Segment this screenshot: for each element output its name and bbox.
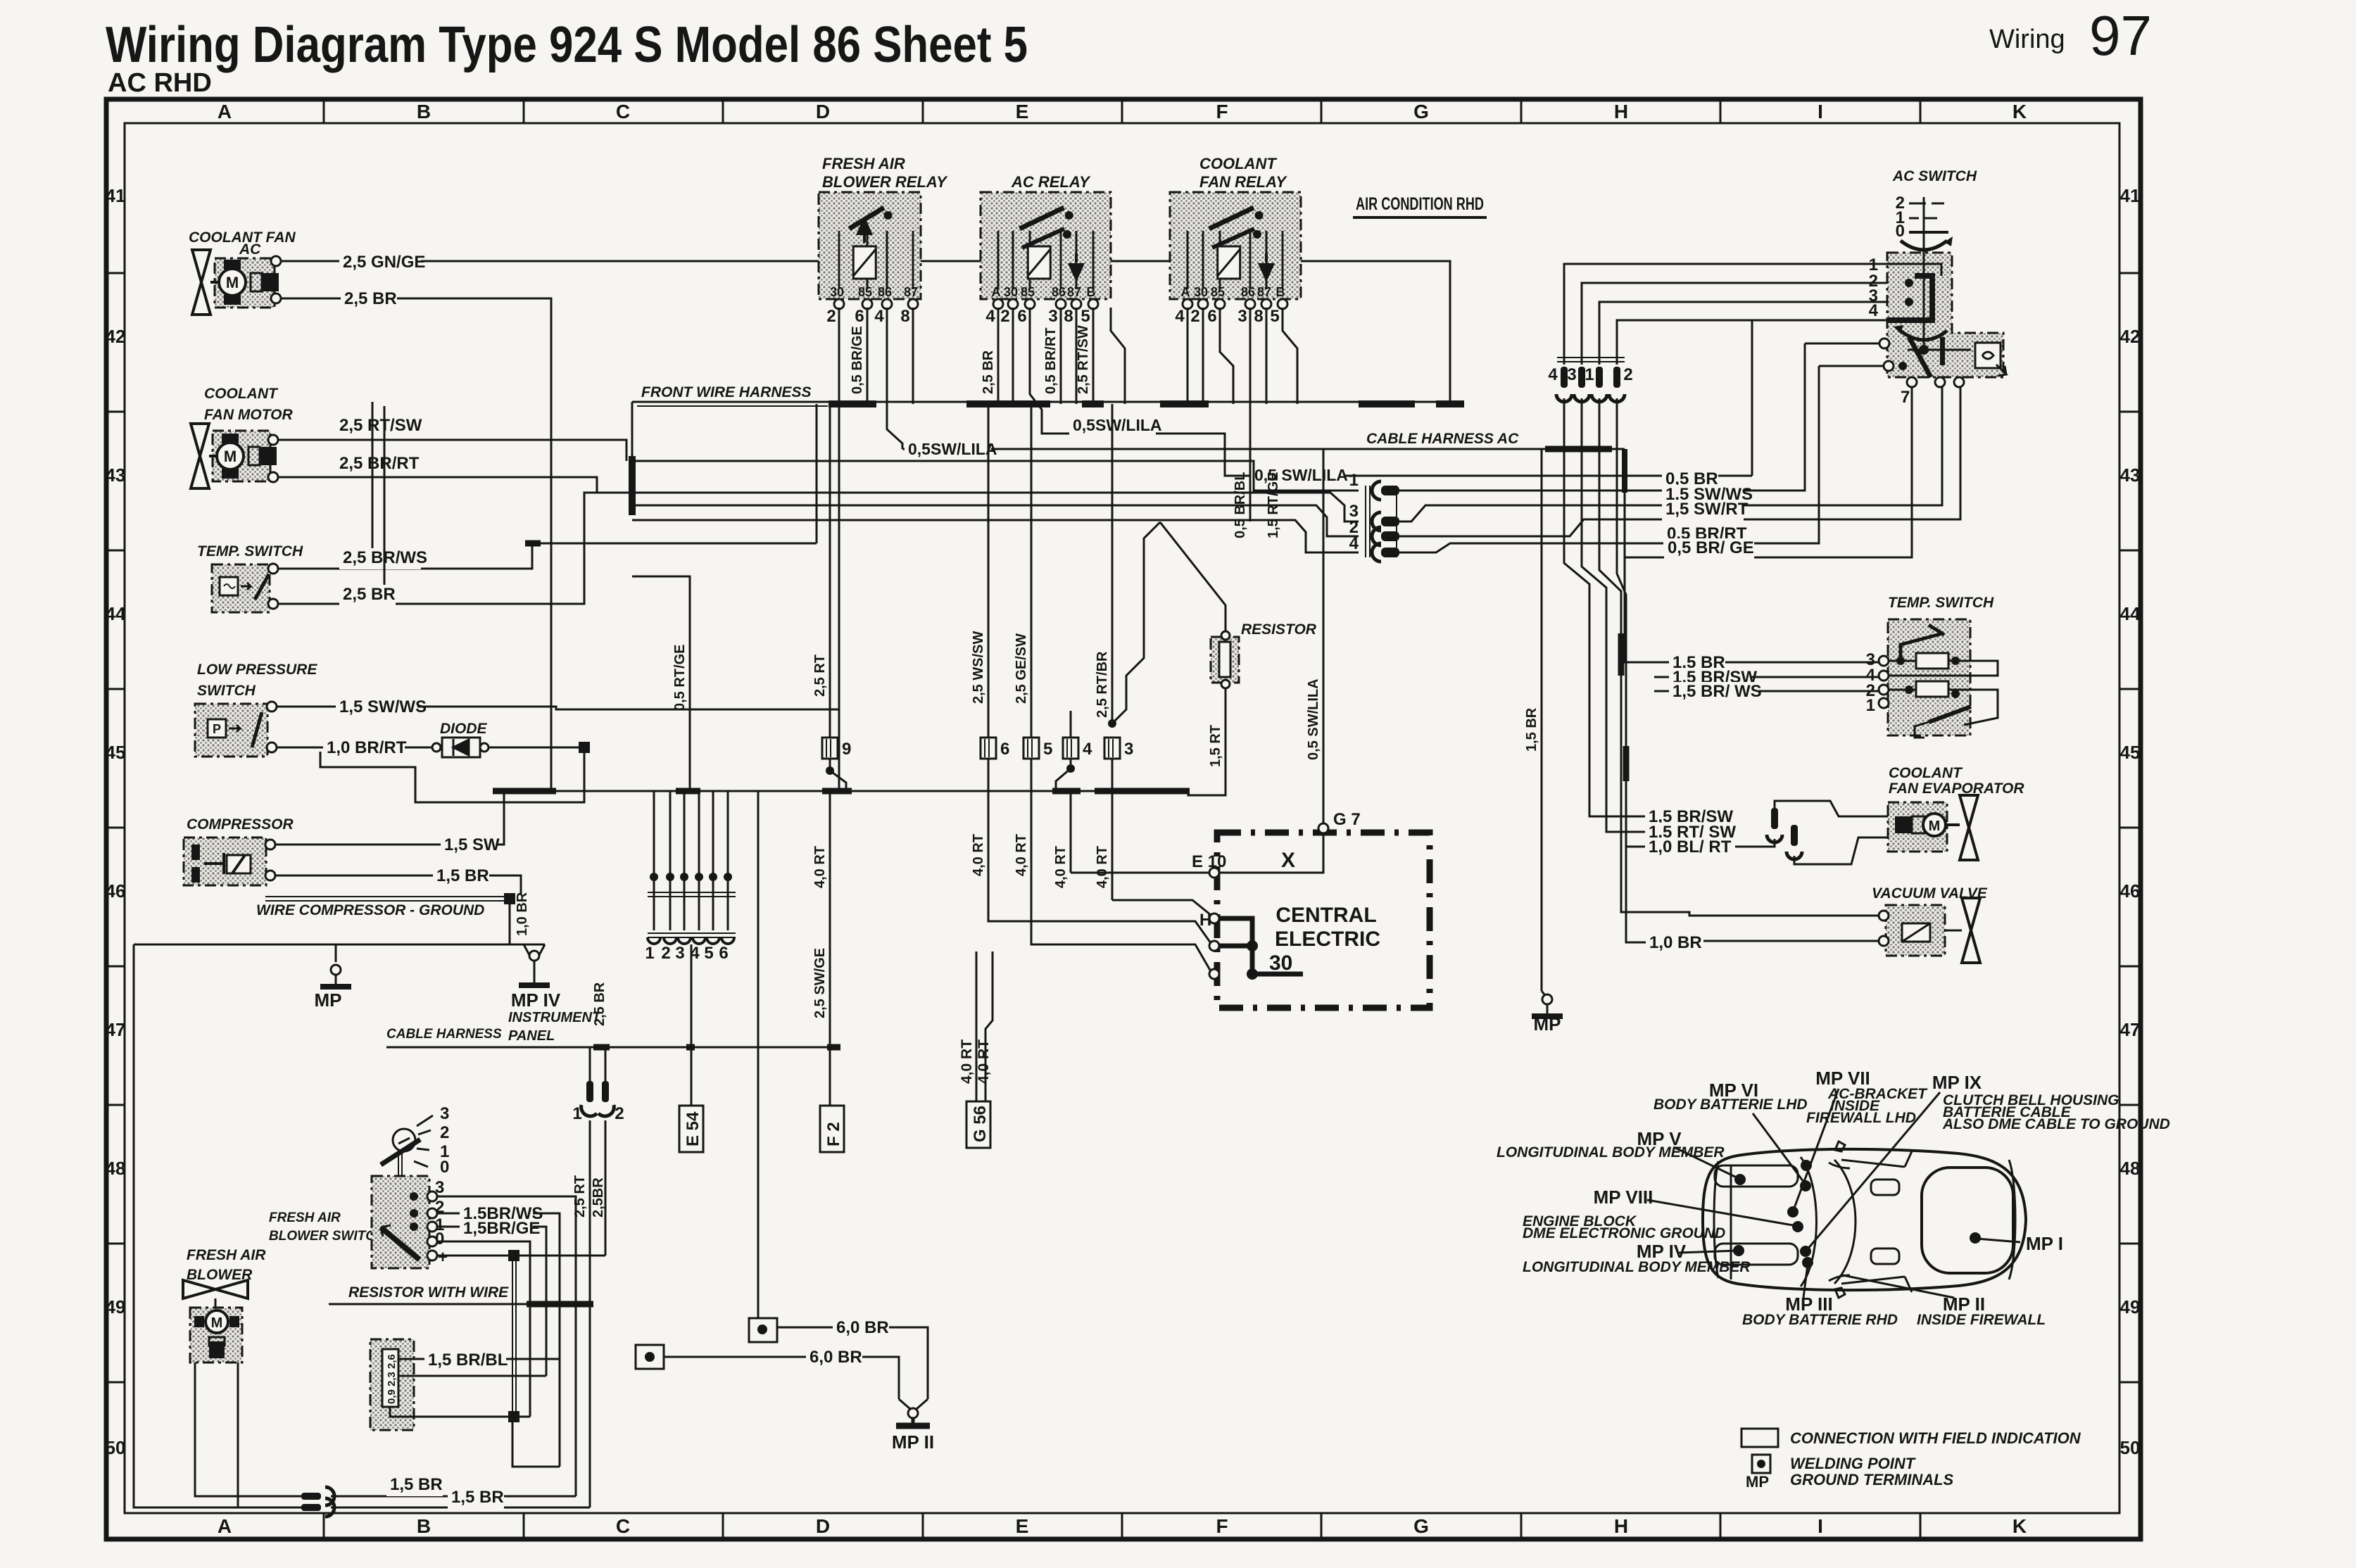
- trunk 0,5 RT/GE: [632, 576, 690, 791]
- svg-text:Wiring: Wiring: [1989, 25, 2065, 54]
- relay pin 87: [908, 299, 918, 309]
- MP ground left: [336, 944, 545, 962]
- svg-text:0: 0: [1896, 222, 1905, 241]
- svg-text:SWITCH: SWITCH: [197, 683, 256, 699]
- svg-text:30: 30: [1194, 285, 1208, 299]
- MP IX leader: [1807, 1092, 1940, 1250]
- AC switch lower contact lever: [1909, 337, 1931, 377]
- svg-text:BLOWER RELAY: BLOWER RELAY: [822, 173, 948, 191]
- wires 4,0RT pair down to G56: [976, 951, 978, 1101]
- svg-text:5: 5: [1270, 307, 1279, 326]
- svg-text:FAN MOTOR: FAN MOTOR: [204, 407, 293, 423]
- svg-text:1,5 BR: 1,5 BR: [436, 866, 489, 885]
- svg-text:41: 41: [2120, 185, 2141, 206]
- MP III leader: [1803, 1265, 1808, 1298]
- 4,0 RT wire d: [1070, 791, 1072, 873]
- svg-text:45: 45: [106, 742, 126, 763]
- svg-text:85: 85: [858, 285, 872, 299]
- svg-text:49: 49: [2120, 1296, 2141, 1317]
- svg-text:E: E: [1016, 101, 1029, 122]
- svg-text:48: 48: [2120, 1158, 2141, 1179]
- right trunk MP ground: [1542, 991, 1547, 998]
- wire 1,5BR/WS switch pin 2: [437, 1213, 560, 1359]
- feeder into central electric E10: [1071, 872, 1209, 874]
- AC switch contact row: [1919, 345, 1929, 355]
- connector row pin 6: [727, 871, 729, 930]
- rotary knob: [393, 1129, 415, 1151]
- wire 6,0 BR upper: [777, 1327, 928, 1399]
- fresh air blower relay: [819, 192, 921, 299]
- fresh air blower fan: [183, 1280, 248, 1298]
- svg-text:50: 50: [2120, 1437, 2141, 1458]
- connector 3 and 2,5 RT/BR: [1111, 404, 1114, 723]
- welding box 6,0 BR lower: [636, 1345, 664, 1369]
- svg-text:4,0 RT: 4,0 RT: [1095, 846, 1110, 888]
- connector 5: [1023, 738, 1039, 759]
- svg-text:INSIDE FIREWALL: INSIDE FIREWALL: [1917, 1312, 2046, 1328]
- AC switch pin 5: [1879, 339, 1889, 348]
- svg-text:E 54: E 54: [684, 1111, 703, 1146]
- wire 1,5 BR bottom upper: [331, 1496, 576, 1498]
- trunk 2,5 GE/SW x1465: [1031, 404, 1033, 738]
- evaporator connector blocks: [1895, 816, 1912, 833]
- svg-text:P: P: [213, 722, 221, 736]
- svg-text:87: 87: [1067, 285, 1081, 299]
- svg-text:2,5 WS/SW: 2,5 WS/SW: [971, 631, 986, 704]
- switch inner lever: [381, 1227, 420, 1260]
- wire 6,0 BR lower: [664, 1357, 899, 1399]
- relay pin 86: [882, 299, 892, 309]
- svg-text:LONGITUDINAL BODY MEMBER: LONGITUDINAL BODY MEMBER: [1523, 1259, 1751, 1275]
- wire 2,5 BR temp switch: [278, 493, 800, 604]
- diode: [432, 743, 441, 752]
- wire 1,5 BR compressor: [275, 875, 521, 894]
- svg-text:6: 6: [1000, 740, 1009, 759]
- coolant fan relay second switch: [1212, 229, 1254, 248]
- car hood line: [1730, 1166, 1732, 1279]
- resistor block bottom wire: [390, 1407, 530, 1417]
- vacuum valve fan: [1962, 898, 1980, 963]
- AC switch hook box: [1975, 343, 2001, 368]
- relay pin A: [993, 299, 1003, 309]
- svg-text:B: B: [417, 101, 431, 122]
- svg-text:85: 85: [1211, 285, 1225, 299]
- svg-text:MP: MP: [1534, 1013, 1561, 1035]
- feeder to pin 30b: [1031, 883, 1211, 971]
- wire 2,5 SW/GE vertical: [829, 922, 831, 1106]
- front wire harness bus: [632, 401, 1464, 403]
- coolant fan motor box: [213, 431, 270, 481]
- svg-text:2: 2: [661, 944, 670, 963]
- svg-text:2,5 SW/GE: 2,5 SW/GE: [812, 948, 828, 1018]
- svg-text:4: 4: [1175, 307, 1185, 326]
- svg-text:87: 87: [904, 285, 918, 299]
- svg-text:3: 3: [1124, 740, 1133, 759]
- temp switch right resistor 1: [1916, 653, 1948, 669]
- ground strap along left margin: [134, 944, 336, 946]
- svg-text:A: A: [218, 101, 232, 122]
- svg-text:E: E: [1016, 1515, 1029, 1537]
- svg-text:5: 5: [1043, 740, 1052, 759]
- car front fascia line: [1714, 1161, 1718, 1278]
- svg-text:A: A: [992, 285, 1001, 299]
- svg-text:1,0 BL/ RT: 1,0 BL/ RT: [1649, 837, 1732, 856]
- central electric pin 30a: [1209, 941, 1219, 951]
- svg-text:4,0 RT: 4,0 RT: [971, 834, 986, 876]
- svg-text:49: 49: [106, 1296, 126, 1317]
- harness line row4: [632, 520, 1359, 552]
- central electric pin H: [1209, 913, 1219, 923]
- svg-text:D: D: [816, 101, 830, 122]
- svg-text:43: 43: [2120, 464, 2141, 486]
- svg-text:G 56: G 56: [971, 1106, 990, 1142]
- svg-text:43: 43: [106, 464, 126, 486]
- connector row pin 4: [698, 871, 700, 930]
- rotary shaft: [398, 1151, 399, 1228]
- svg-text:2,5 BR: 2,5 BR: [981, 350, 996, 394]
- inline connector contact y785: [1372, 543, 1381, 562]
- MP IV ground: [524, 944, 534, 961]
- svg-text:2,5 BR: 2,5 BR: [343, 585, 396, 604]
- central electric pin 30b: [1209, 969, 1219, 979]
- svg-text:A: A: [218, 1515, 232, 1537]
- grid column dividers top/bottom: [323, 99, 325, 123]
- svg-text:4,0 RT: 4,0 RT: [959, 1039, 975, 1084]
- connector row pin 3: [684, 871, 686, 930]
- low pressure switch box: [195, 704, 267, 757]
- inline connector contact y741: [1372, 512, 1381, 531]
- svg-text:1,5 BR: 1,5 BR: [1524, 707, 1539, 752]
- svg-text:DIODE: DIODE: [440, 721, 488, 737]
- MP V leader: [1674, 1147, 1739, 1179]
- svg-text:0,9 2,3 2,6: 0,9 2,3 2,6: [386, 1354, 398, 1404]
- relay switch contact: [1020, 208, 1064, 229]
- svg-text:9: 9: [842, 740, 851, 759]
- trunk 1,5 BR vertical: [1541, 449, 1543, 991]
- riser 2,5 BR branch: [384, 406, 386, 604]
- svg-text:50: 50: [106, 1437, 126, 1458]
- relay pin 87: [1071, 299, 1081, 309]
- svg-text:0,5 RT/GE: 0,5 RT/GE: [672, 645, 688, 711]
- 4,0 RT wire c: [1031, 791, 1033, 883]
- svg-text:2: 2: [615, 1104, 624, 1123]
- svg-text:5: 5: [704, 944, 713, 963]
- svg-text:FRONT WIRE HARNESS: FRONT WIRE HARNESS: [641, 384, 812, 400]
- svg-text:LONGITUDINAL BODY MEMBER: LONGITUDINAL BODY MEMBER: [1497, 1144, 1725, 1161]
- svg-text:3: 3: [440, 1104, 449, 1123]
- svg-text:4: 4: [985, 307, 995, 326]
- AC switch box: [1887, 253, 2003, 377]
- car windshield left edge: [1801, 1157, 1817, 1286]
- car mirror bottom: [1835, 1288, 1845, 1298]
- svg-text:1,0 BR/RT: 1,0 BR/RT: [327, 738, 407, 757]
- svg-text:2,5 BR: 2,5 BR: [344, 289, 397, 308]
- svg-text:H: H: [1614, 101, 1628, 122]
- svg-text:Wiring Diagram Type 924 S Mode: Wiring Diagram Type 924 S Model 86 Sheet…: [106, 17, 1028, 73]
- low pressure lower path: [320, 752, 584, 802]
- car headlight bottom: [1715, 1244, 1798, 1265]
- svg-text:6: 6: [1207, 307, 1216, 326]
- svg-text:1,5 SW: 1,5 SW: [444, 835, 500, 854]
- connector row pin 5: [712, 871, 714, 930]
- coolant fan motor pin1: [268, 435, 278, 445]
- evaporator wires: [1775, 801, 1888, 816]
- field connection box G 56: [966, 1101, 990, 1148]
- svg-text:6: 6: [1017, 307, 1026, 326]
- svg-text:1,5 SW/WS: 1,5 SW/WS: [339, 697, 427, 716]
- AC switch shaft: [1923, 253, 1925, 345]
- svg-text:1,5 RT: 1,5 RT: [1208, 725, 1223, 767]
- vacuum valve pin1: [1879, 911, 1889, 921]
- svg-text:1,5 BR/ WS: 1,5 BR/ WS: [1672, 682, 1762, 701]
- svg-text:TEMP. SWITCH: TEMP. SWITCH: [1888, 595, 1994, 611]
- wire 1,5 BR/BL: [398, 1358, 560, 1360]
- svg-text:2: 2: [1190, 307, 1199, 326]
- svg-text:B: B: [417, 1515, 431, 1537]
- svg-text:FAN EVAPORATOR: FAN EVAPORATOR: [1889, 780, 2024, 797]
- connector group pin 4: [1561, 367, 1568, 388]
- wire 1,0 BR: [1703, 940, 1879, 942]
- svg-text:MP II: MP II: [892, 1431, 934, 1453]
- wire 2,5 GN/GE: [281, 261, 1450, 404]
- coolant fan motor pin2: [268, 472, 278, 482]
- svg-text:M: M: [226, 274, 239, 291]
- svg-text:BLOWER SWITCH: BLOWER SWITCH: [269, 1229, 386, 1244]
- wire 2,5 BR/WS: [278, 543, 532, 569]
- svg-text:47: 47: [2120, 1019, 2141, 1040]
- loop wire from resistor cross to riser: [512, 1422, 560, 1467]
- svg-text:42: 42: [2120, 326, 2141, 347]
- wire 0,5 BR/RT long: [1399, 366, 1819, 552]
- svg-text:B: B: [1276, 285, 1285, 299]
- svg-text:0,5 SW/LILA: 0,5 SW/LILA: [1306, 678, 1321, 760]
- svg-text:30: 30: [1269, 951, 1292, 975]
- vacuum valve element: [1902, 923, 1930, 942]
- relay coil: [1028, 246, 1050, 279]
- wire compressor ground double line: [265, 896, 504, 897]
- svg-text:I: I: [1818, 101, 1823, 122]
- svg-text:I: I: [1818, 1515, 1823, 1537]
- rotary dashes and numbers: [417, 1115, 433, 1126]
- svg-text:AC SWITCH: AC SWITCH: [1892, 168, 1977, 184]
- svg-text:4,0 RT: 4,0 RT: [1014, 834, 1029, 876]
- resistor with wire line: [329, 1303, 593, 1305]
- low pressure pin2: [267, 742, 277, 752]
- front wire harness junction bar: [629, 456, 636, 515]
- svg-text:2,5 GN/GE: 2,5 GN/GE: [343, 253, 425, 272]
- wire switch pin +: [437, 1255, 605, 1257]
- coolant fan motor motor: [217, 434, 277, 479]
- feeder to H pin: [1112, 900, 1211, 915]
- svg-text:AC RELAY: AC RELAY: [1011, 173, 1091, 191]
- relay pin 85: [1215, 299, 1225, 309]
- junction square compressor ground: [504, 893, 515, 904]
- svg-text:C: C: [616, 1515, 630, 1537]
- harness line row3: [632, 493, 1359, 521]
- fresh air blower box: [190, 1308, 242, 1362]
- relay switch contact: [1209, 208, 1254, 229]
- relay pin B: [1088, 299, 1098, 309]
- temp switch right box: [1888, 619, 1970, 735]
- AC relay pinA wire 2,5 BR: [997, 308, 1000, 404]
- svg-text:WELDING POINT: WELDING POINT: [1790, 1455, 1916, 1472]
- svg-text:LOW PRESSURE: LOW PRESSURE: [197, 662, 317, 678]
- coolant fan relay diode arrow: [1260, 253, 1273, 279]
- svg-text:1,5 BR: 1,5 BR: [451, 1488, 504, 1507]
- coolant fan AC box: [215, 258, 275, 308]
- thick junction marks on trunk: [1618, 633, 1625, 676]
- wire 2,5 BR coolant fan ac: [281, 298, 551, 540]
- wire from switch pin 3: [437, 1196, 576, 1496]
- field connection box F 2: [820, 1106, 844, 1152]
- svg-text:4: 4: [1349, 534, 1359, 553]
- front wire harness bus corner: [631, 402, 634, 458]
- AC switch lower arc arrow: [1901, 331, 1947, 340]
- svg-text:C: C: [616, 101, 630, 122]
- svg-text:TEMP. SWITCH: TEMP. SWITCH: [197, 543, 303, 559]
- svg-text:3: 3: [1237, 307, 1247, 326]
- svg-text:G: G: [1413, 1515, 1429, 1537]
- fresh air blower motor: [206, 1310, 228, 1333]
- svg-text:86: 86: [878, 285, 892, 299]
- low pressure pin1: [267, 702, 277, 712]
- svg-text:4,0 RT: 4,0 RT: [812, 846, 828, 888]
- trunk 2,5 WS/SW x1404: [988, 404, 990, 738]
- svg-text:COOLANT: COOLANT: [1199, 155, 1277, 172]
- car body outline: [1703, 1149, 2026, 1290]
- svg-text:2,5 RT/SW: 2,5 RT/SW: [1076, 325, 1091, 394]
- svg-text:2,5 GE/SW: 2,5 GE/SW: [1014, 633, 1029, 704]
- resistor block element: [382, 1349, 398, 1407]
- relay pin 30: [1198, 299, 1208, 309]
- wire pin6 left: [1819, 365, 1884, 367]
- svg-text:RESISTOR WITH WIRE: RESISTOR WITH WIRE: [348, 1284, 509, 1301]
- inline connector contact y762: [1372, 527, 1381, 545]
- svg-text:CENTRAL: CENTRAL: [1275, 904, 1376, 927]
- car headrest bottom: [1871, 1248, 1899, 1264]
- svg-text:MP: MP: [315, 990, 342, 1011]
- svg-text:42: 42: [106, 326, 126, 347]
- svg-text:97: 97: [2089, 4, 2152, 67]
- relay pin 85: [862, 299, 872, 309]
- svg-text:DME ELECTRONIC GROUND: DME ELECTRONIC GROUND: [1523, 1225, 1725, 1241]
- svg-text:0,5SW/LILA: 0,5SW/LILA: [908, 440, 997, 458]
- svg-text:45: 45: [2120, 742, 2141, 763]
- AC relay pin86 wires 0,5BR/RT 2,5RT/SW: [1060, 308, 1062, 404]
- svg-text:0,5 BR/ GE: 0,5 BR/ GE: [1668, 538, 1754, 557]
- svg-text:2,5 RT/SW: 2,5 RT/SW: [339, 416, 422, 435]
- svg-text:2,5 RT: 2,5 RT: [812, 655, 828, 697]
- AC relay: [981, 192, 1111, 299]
- svg-text:F: F: [1216, 101, 1228, 122]
- svg-text:A: A: [1181, 285, 1190, 299]
- svg-text:44: 44: [2120, 603, 2141, 624]
- svg-text:8: 8: [1254, 307, 1263, 326]
- svg-text:1,5BR/GE: 1,5BR/GE: [463, 1219, 540, 1238]
- outer border frame: [106, 99, 2141, 1539]
- svg-text:COMPRESSOR: COMPRESSOR: [187, 816, 294, 833]
- svg-text:GROUND TERMINALS: GROUND TERMINALS: [1790, 1471, 1954, 1488]
- svg-text:COOLANT: COOLANT: [204, 386, 279, 402]
- AC relay pin30 wire: [1012, 308, 1014, 404]
- svg-text:FRESH AIR: FRESH AIR: [822, 155, 905, 172]
- wire pin5 left: [1805, 343, 1879, 345]
- coolant fan AC motor: [219, 260, 279, 305]
- wire from diode to junction: [489, 747, 584, 791]
- grid row dividers: [106, 272, 125, 274]
- svg-text:48: 48: [106, 1158, 126, 1179]
- compressor pin1: [265, 840, 275, 849]
- svg-text:6: 6: [855, 307, 864, 326]
- svg-text:1: 1: [1866, 696, 1875, 715]
- wire 1,5 BR/SW right temp switch: [1654, 676, 1879, 678]
- svg-text:47: 47: [106, 1019, 126, 1040]
- svg-text:CABLE HARNESS: CABLE HARNESS: [386, 1027, 502, 1042]
- svg-text:E 10: E 10: [1192, 852, 1226, 871]
- instrument panel bus: [386, 1047, 840, 1049]
- svg-text:F: F: [1216, 1515, 1228, 1537]
- svg-text:M: M: [1929, 818, 1941, 834]
- car door line bottom: [1905, 1277, 1912, 1292]
- svg-text:M: M: [211, 1315, 223, 1331]
- evaporator motor: [1923, 814, 1946, 836]
- svg-text:FRESH AIR: FRESH AIR: [269, 1210, 341, 1225]
- riser 1,0 BR to MP wire: [509, 904, 511, 944]
- svg-text:MP: MP: [1746, 1473, 1769, 1491]
- svg-text:41: 41: [106, 185, 126, 206]
- svg-text:6,0 BR: 6,0 BR: [810, 1348, 862, 1367]
- MP II ground funnel: [899, 1399, 910, 1409]
- central electric pin E10: [1209, 868, 1219, 878]
- car cowl line top: [1841, 1160, 1905, 1167]
- X node and internal wire: [1219, 833, 1323, 873]
- legend connection box: [1741, 1429, 1778, 1447]
- resistor box: [1211, 637, 1239, 683]
- svg-text:46: 46: [2120, 880, 2141, 902]
- resistor block box: [370, 1339, 414, 1430]
- svg-text:2: 2: [1623, 365, 1632, 384]
- svg-text:M: M: [224, 448, 237, 465]
- AC relay second switch: [1022, 229, 1064, 248]
- svg-text:4: 4: [1083, 740, 1092, 759]
- wire 1,0 BR/RT: [277, 747, 436, 749]
- compressor pin2: [265, 871, 275, 880]
- svg-text:4,0 RT: 4,0 RT: [976, 1039, 992, 1084]
- riser 0,5 SW/LILA lower: [1818, 371, 1820, 501]
- svg-text:K: K: [2012, 101, 2027, 122]
- relay1 pin86 wire to 0,5 SW/LILA lower: [887, 308, 902, 449]
- svg-text:2,5BR: 2,5BR: [591, 1177, 606, 1218]
- connector group 4 3 1 2 rails: [1557, 357, 1625, 358]
- central electric pin G7: [1318, 823, 1328, 833]
- svg-text:FAN RELAY: FAN RELAY: [1199, 173, 1287, 191]
- car door line top: [1905, 1151, 1912, 1167]
- junction bar on 2,5 BR/WS: [525, 540, 541, 547]
- svg-text:3: 3: [1567, 365, 1576, 384]
- connector row rails: [648, 892, 736, 893]
- riser x1160 to bus: [816, 404, 818, 543]
- AC switch internal conductor: [1905, 279, 1913, 287]
- relay1 pin30 wire: [838, 308, 840, 404]
- temp switch pin2: [268, 599, 278, 609]
- svg-text:4: 4: [1548, 365, 1558, 384]
- svg-text:86: 86: [1241, 285, 1255, 299]
- svg-text:MP I: MP I: [2026, 1233, 2063, 1254]
- resistor element: [1219, 642, 1230, 677]
- connector row pin 1: [653, 871, 655, 930]
- welding points on car: [1801, 1160, 1812, 1171]
- central electric box: [1217, 833, 1430, 1008]
